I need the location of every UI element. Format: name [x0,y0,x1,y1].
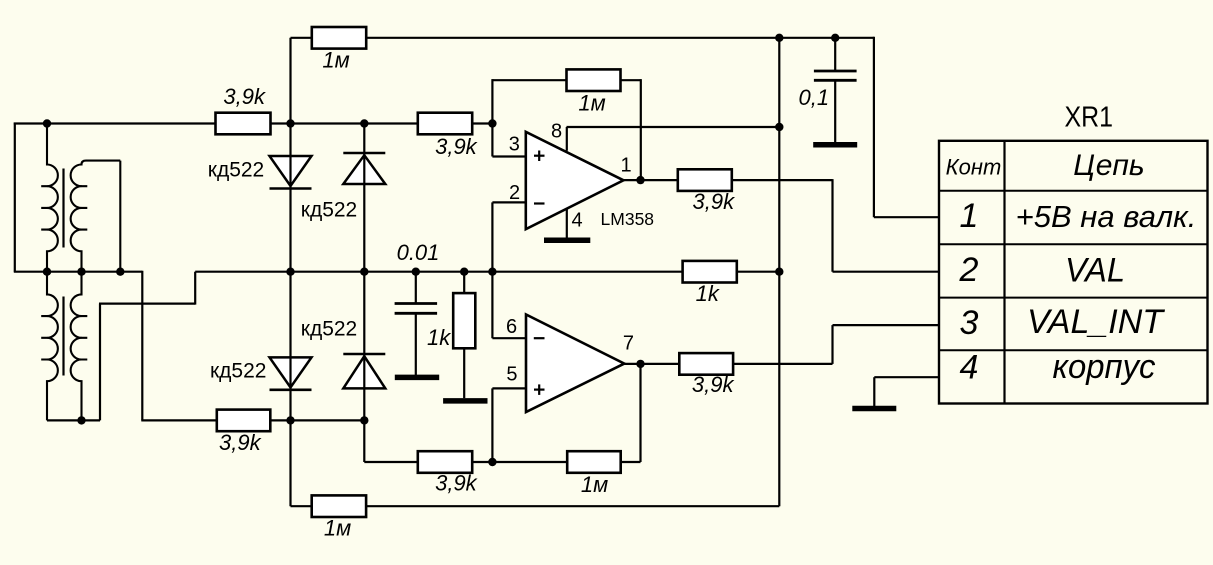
svg-text:4: 4 [572,209,583,231]
svg-text:0,1: 0,1 [799,85,830,110]
svg-text:корпус: корпус [1053,348,1156,386]
svg-text:1k: 1k [696,281,720,306]
svg-text:1м: 1м [322,48,349,73]
svg-text:0.01: 0.01 [397,240,440,265]
svg-text:1: 1 [620,154,631,176]
svg-text:5: 5 [506,364,517,386]
svg-text:кд522: кд522 [301,318,357,341]
svg-text:2: 2 [509,182,520,204]
svg-text:1: 1 [960,197,979,235]
svg-text:Цепь: Цепь [1073,149,1144,182]
svg-text:VAL_INT: VAL_INT [1027,303,1165,341]
svg-text:+5В на валк.: +5В на валк. [1016,199,1197,234]
svg-text:VAL: VAL [1065,252,1125,290]
svg-text:3,9k: 3,9k [219,430,262,455]
svg-text:3: 3 [509,133,520,155]
svg-text:8: 8 [551,121,562,143]
svg-text:6: 6 [506,316,517,338]
svg-text:3,9k: 3,9k [435,134,478,159]
svg-text:3,9k: 3,9k [693,189,736,214]
svg-text:3,9k: 3,9k [692,372,735,397]
svg-text:7: 7 [623,333,634,355]
svg-text:3,9k: 3,9k [223,84,266,109]
svg-text:4: 4 [960,349,979,387]
svg-text:Конт: Конт [946,155,1002,180]
svg-text:1м: 1м [324,516,351,541]
svg-text:кд522: кд522 [301,198,357,221]
svg-text:XR1: XR1 [1064,102,1113,134]
svg-text:кд522: кд522 [208,159,264,182]
svg-text:3,9k: 3,9k [435,471,478,496]
svg-text:1k: 1k [427,325,451,350]
svg-text:3: 3 [960,304,979,342]
svg-text:кд522: кд522 [210,360,266,383]
svg-text:2: 2 [959,251,979,289]
svg-text:1м: 1м [581,472,608,497]
svg-text:LM358: LM358 [601,209,655,229]
svg-text:1м: 1м [578,91,605,116]
